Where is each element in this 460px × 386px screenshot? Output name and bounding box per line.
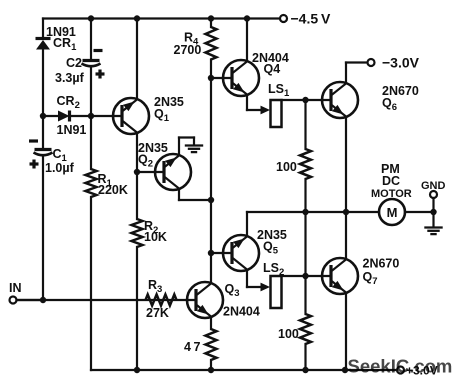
svg-text:27K: 27K [146, 306, 169, 320]
svg-text:2N670: 2N670 [363, 257, 400, 271]
svg-text:C2: C2 [66, 56, 82, 70]
svg-text:−4.5 V: −4.5 V [291, 11, 331, 27]
svg-text:Q4: Q4 [264, 62, 281, 76]
svg-text:2700: 2700 [174, 43, 202, 57]
svg-text:2N404: 2N404 [223, 305, 260, 319]
svg-text:SeekIC.com: SeekIC.com [348, 356, 453, 377]
svg-text:1.0µf: 1.0µf [45, 161, 75, 175]
svg-text:3.3µf: 3.3µf [55, 71, 85, 85]
svg-text:4 7: 4 7 [184, 340, 200, 354]
svg-text:−3.0V: −3.0V [382, 55, 420, 71]
svg-text:GND: GND [421, 180, 446, 192]
svg-text:100: 100 [278, 327, 299, 341]
svg-text:IN: IN [9, 281, 22, 295]
svg-text:220K: 220K [98, 183, 128, 197]
svg-text:10K: 10K [144, 230, 167, 244]
svg-text:100: 100 [276, 160, 297, 174]
svg-text:M: M [387, 205, 398, 220]
svg-text:DC: DC [382, 174, 400, 188]
svg-text:MOTOR: MOTOR [371, 188, 412, 200]
svg-text:1N91: 1N91 [57, 123, 87, 137]
